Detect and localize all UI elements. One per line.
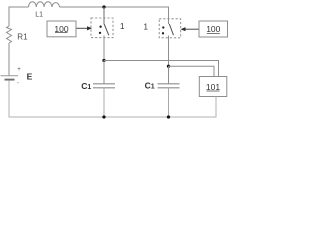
switch S1 contacts (left) [99,26,101,28]
wire right capacitor drop [168,66,170,84]
node dot bottom-right [167,115,170,118]
node dot mid-left [102,59,105,62]
svg-text:1: 1 [120,22,125,31]
arrow control left [77,27,89,29]
svg-text:1: 1 [144,23,149,32]
switch S2 blade (right) [169,24,173,35]
svg-text:101: 101 [206,82,220,92]
dashed box switch cell 1 (right) [159,19,181,38]
wire lower horizontal to box 101 [169,66,215,76]
switch S1 blade (left) [104,24,109,35]
svg-text:-: - [17,81,19,87]
wire top-left vertical (battery to top rail) [8,43,10,76]
svg-text:R1: R1 [17,33,28,42]
battery E plus terminal plate [1,75,19,77]
wire left switch drop [103,7,105,24]
box 100 right (control) [199,21,228,37]
switch S2 contacts (right) [162,26,164,28]
wire below left capacitor [103,88,105,117]
node dot bottom-left [102,115,105,118]
box 100 left (control) [47,21,76,37]
box 101 (load) [199,77,227,97]
wire below right capacitor [168,88,170,117]
wire upper horizontal to box 101 [104,61,219,77]
wire top rail [60,7,169,24]
wire below right switch [168,36,170,67]
node dot top (junction L1 / switches) [102,5,105,8]
wire below left switch [103,36,105,61]
inductor L1 [29,2,60,7]
dashed box switch cell 1 (left) [91,18,113,38]
svg-text:+: + [17,67,21,73]
arrow control right [184,28,199,30]
svg-text:C1: C1 [145,81,155,91]
capacitor C1 right plates [158,83,180,85]
resistor R1 [7,26,12,43]
node dot mid-right [167,65,170,68]
wire left vertical above R1 [9,7,29,26]
svg-text:E: E [27,72,33,82]
battery E minus terminal plate [5,79,15,81]
wire battery bottom to bottom rail [9,81,216,117]
svg-text:L1: L1 [35,11,43,18]
capacitor C1 left plates [93,83,115,85]
svg-text:100: 100 [206,24,220,34]
svg-text:C1: C1 [81,81,91,91]
wire left capacitor drop [103,61,105,84]
